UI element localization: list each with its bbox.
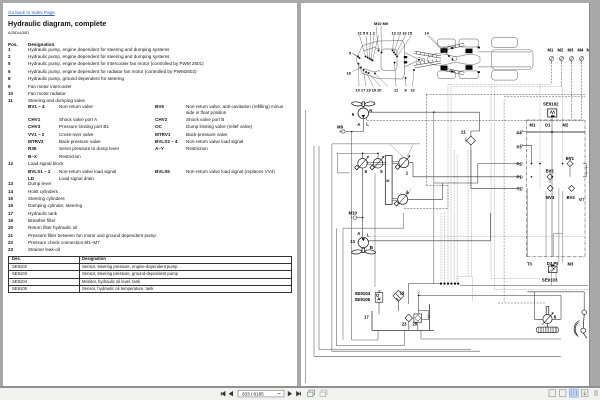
page number box bbox=[238, 390, 284, 397]
sensor SE9103 block bbox=[549, 266, 558, 273]
svg-text:M4: M4 bbox=[578, 48, 584, 53]
node LS crossing bbox=[539, 163, 541, 165]
hoist cylinder right on truck bbox=[443, 68, 465, 75]
check valve BV2 bbox=[547, 174, 553, 180]
truck callout leader lines bbox=[353, 26, 453, 87]
block lower verticals bbox=[527, 188, 563, 262]
dotted pair columns bbox=[468, 85, 495, 290]
test point M10 bbox=[351, 216, 357, 219]
measuring hose M1 drop bbox=[551, 62, 553, 85]
wheel front-right bbox=[438, 71, 456, 79]
truck cab front outline bbox=[356, 41, 405, 80]
node M10 junction bbox=[362, 217, 364, 219]
dash-dot column bbox=[503, 100, 505, 303]
truck callout labels bbox=[347, 21, 430, 92]
svg-text:20: 20 bbox=[412, 322, 417, 327]
wire B-line drop long bbox=[433, 112, 435, 283]
bogie frame outline bbox=[427, 54, 480, 66]
wire gearbox to pump2 shaft bbox=[392, 198, 398, 200]
check valve BV3 bbox=[547, 185, 553, 191]
truck platform inner outline bbox=[381, 49, 397, 71]
svg-text:B: B bbox=[369, 108, 372, 113]
svg-text:T3: T3 bbox=[527, 261, 533, 266]
wire tank return riser right bbox=[560, 295, 562, 319]
bottom toolbar bbox=[0, 386, 600, 400]
wire steering feed line bbox=[527, 292, 584, 320]
wire pump8 ports bbox=[535, 318, 562, 320]
wire pump6 down to fan10 bbox=[362, 168, 364, 237]
node M2 crossing bbox=[562, 163, 564, 165]
sensor SE9102 bbox=[548, 109, 557, 117]
test point M9 bbox=[339, 130, 345, 133]
sensor table bbox=[8, 256, 292, 294]
node D1 on P4 bbox=[551, 131, 553, 133]
svg-text:L: L bbox=[366, 121, 369, 126]
dotted LS line in block left bbox=[539, 85, 541, 189]
svg-text:8: 8 bbox=[554, 315, 557, 320]
node D3 connector bbox=[551, 265, 554, 267]
drain diagonals pump1 bbox=[390, 145, 413, 158]
wire sensor stem into tank bbox=[378, 302, 380, 314]
wheel rear-left bbox=[492, 38, 518, 48]
svg-text:18: 18 bbox=[347, 71, 352, 76]
filter 20 bypass loop bbox=[419, 311, 429, 320]
svg-text:22: 22 bbox=[411, 87, 416, 92]
svg-text:23: 23 bbox=[402, 322, 407, 327]
wire pump5 drain down bbox=[374, 173, 376, 287]
svg-text:M2: M2 bbox=[563, 123, 569, 128]
wire fan9 B port to filter 21 bbox=[369, 112, 480, 136]
wire grey cross line to pump2 bbox=[343, 213, 404, 228]
test point M3 bbox=[570, 57, 574, 63]
axle mounts black bbox=[404, 48, 473, 70]
pump 1 variable bbox=[395, 155, 410, 169]
svg-text:10: 10 bbox=[350, 239, 355, 244]
svg-text:M3: M3 bbox=[568, 261, 574, 266]
pump subframe bbox=[337, 153, 379, 173]
wire fan10 return elbow bbox=[336, 228, 404, 345]
port circle P4 bbox=[521, 130, 523, 132]
rear frame rails bbox=[478, 52, 531, 67]
wire filter 20 outlet bbox=[417, 322, 419, 330]
wire tank outlet bottom run bbox=[421, 330, 561, 339]
dotted M2 run bbox=[451, 86, 562, 88]
wheel front-left bbox=[438, 39, 456, 47]
test point M1 bbox=[550, 57, 554, 63]
strainer 23 bbox=[405, 314, 413, 322]
pump 8 ground dependent bbox=[542, 306, 553, 324]
wire LS collector to tank bbox=[409, 284, 441, 304]
inner dashed boundary right bbox=[504, 96, 585, 98]
svg-text:14: 14 bbox=[425, 31, 430, 36]
bogie pivot circle bbox=[452, 57, 456, 61]
svg-text:MT: MT bbox=[579, 197, 585, 202]
pump group solid frame bbox=[332, 144, 480, 351]
pump 2 variable bbox=[394, 192, 409, 206]
wire long left vertical outer bbox=[305, 110, 307, 383]
svg-text:SE9105: SE9105 bbox=[355, 297, 371, 302]
tank 17 bbox=[372, 304, 434, 330]
hitch pin bbox=[418, 59, 420, 61]
steering cylinder port bracket bbox=[583, 164, 588, 177]
svg-text:BV4: BV4 bbox=[567, 195, 576, 200]
wire fan9 L drain dashed bbox=[366, 118, 585, 121]
hitch circles bbox=[417, 57, 422, 62]
dump body rear outline bbox=[492, 50, 534, 70]
dotted M1 run bbox=[448, 84, 552, 86]
steering wheel unit bbox=[574, 310, 587, 338]
gearbox PTO bbox=[385, 156, 392, 205]
fan 9 labels bbox=[352, 108, 373, 126]
svg-text:L: L bbox=[367, 233, 370, 238]
previous view icon bbox=[308, 390, 315, 397]
node SE9102 tap bbox=[551, 115, 554, 117]
fan motor 9 intercooler bbox=[351, 101, 375, 118]
svg-text:21: 21 bbox=[461, 129, 466, 134]
wire P1 from pump1 bbox=[409, 163, 522, 177]
wire P3 stub bbox=[522, 145, 532, 163]
check valve BV1 bbox=[567, 161, 573, 167]
svg-text:B: B bbox=[370, 245, 373, 250]
truck callout dots bbox=[357, 50, 453, 79]
node M1 on P1 bbox=[531, 176, 533, 178]
articulation wedge bbox=[405, 53, 417, 68]
wheel mid-left bbox=[459, 39, 479, 47]
svg-text:D1: D1 bbox=[545, 123, 551, 128]
svg-text:5: 5 bbox=[380, 169, 383, 174]
wire fan10 L drain dotted bbox=[367, 235, 585, 237]
dotted elbows to pump8 bbox=[491, 279, 588, 290]
breather filter 19 bbox=[393, 290, 404, 301]
steering cylinder left on truck bbox=[414, 51, 441, 58]
svg-text:BV3: BV3 bbox=[546, 195, 555, 200]
wire fan10 B return bbox=[369, 213, 491, 241]
sensor SE9104/05 unit bbox=[375, 291, 383, 302]
node P3-P2 junction bbox=[531, 163, 533, 165]
port circle T2 bbox=[521, 187, 523, 189]
port labels M1 D1 M2 bbox=[530, 123, 569, 128]
wire P4 double line bbox=[522, 131, 586, 132]
svg-text:SE9104: SE9104 bbox=[355, 291, 371, 296]
svg-text:M10: M10 bbox=[349, 210, 358, 215]
load signal dotted columns bbox=[441, 85, 457, 284]
wire P2 from pump2 bbox=[408, 164, 522, 200]
first page button bbox=[221, 391, 225, 395]
wire long bottom drain bbox=[460, 285, 588, 287]
wire pump drive shaft bbox=[366, 162, 386, 164]
wire pump5 suction up bbox=[377, 153, 379, 158]
svg-text:SE9102: SE9102 bbox=[543, 102, 559, 107]
next page button bbox=[288, 391, 291, 395]
measuring hose M4 dashed drop bbox=[581, 62, 583, 120]
wire filter 21 to T2 bbox=[470, 145, 472, 188]
wire fan9 A port down to M9 junction bbox=[346, 119, 364, 132]
measuring hose M3 dashed drop bbox=[571, 62, 573, 120]
measuring hose M2 drop bbox=[561, 62, 563, 87]
wire M10 stub bbox=[357, 217, 363, 219]
valve block 11 dash-dot boundary bbox=[527, 120, 585, 257]
left document page: parts list bbox=[3, 3, 297, 386]
wire BV1 riser bbox=[569, 157, 571, 177]
pressure check points M1-M4 labels bbox=[548, 48, 591, 53]
port labels T3 D3 P5 M3 bbox=[527, 261, 574, 267]
bypass check ticks bbox=[427, 315, 429, 317]
svg-text:1: 1 bbox=[406, 171, 409, 176]
port circle P1 bbox=[521, 176, 523, 178]
SE9104 SE9105 labels bbox=[355, 291, 371, 302]
wire breather stem bbox=[397, 301, 399, 311]
wire left elbow third bbox=[319, 146, 471, 350]
prev page button bbox=[229, 391, 232, 395]
svg-text:M2: M2 bbox=[558, 48, 564, 53]
svg-text:17: 17 bbox=[364, 315, 369, 320]
test point M4 bbox=[580, 57, 584, 63]
port labels P4 P3 P2 P1 T2 bbox=[517, 130, 523, 191]
dotted LS elbow right bbox=[457, 277, 472, 302]
svg-text:19: 19 bbox=[400, 290, 405, 295]
dotted LS line in block right bbox=[562, 87, 564, 164]
wheel hub marks bbox=[451, 47, 480, 73]
node shaft feed pump5 bbox=[377, 153, 379, 155]
truck top-view overview drawing bbox=[356, 38, 533, 81]
wire pump6 suction up bbox=[362, 153, 364, 158]
fan 9 motor triangle bbox=[362, 115, 365, 118]
wire vertical from grey cross bbox=[342, 228, 344, 340]
hoist cylinder left on truck bbox=[443, 43, 465, 50]
port circle P3 bbox=[521, 144, 523, 146]
svg-text:SE9103: SE9103 bbox=[542, 278, 558, 283]
svg-text:M9: M9 bbox=[337, 124, 344, 129]
right document page: hydraulic schematic bbox=[301, 3, 590, 386]
wire return long line bbox=[419, 294, 561, 296]
node at B line junction bbox=[433, 111, 435, 113]
wire left elbow second bbox=[314, 146, 561, 356]
wire return into filter 20 bbox=[418, 295, 420, 314]
node D1-P1 junction bbox=[551, 176, 553, 178]
wire strainer to tank bottom bbox=[408, 322, 410, 331]
svg-text:11: 11 bbox=[394, 87, 399, 92]
steering cylinder right on truck bbox=[414, 59, 441, 68]
svg-text:333 / 6165: 333 / 6165 bbox=[242, 391, 264, 396]
wire sensor taps down bbox=[552, 273, 557, 286]
svg-text:M10 M9: M10 M9 bbox=[374, 21, 389, 26]
wire BV2 riser bbox=[549, 170, 551, 183]
filter 21 bbox=[465, 136, 475, 145]
truck engine inner outline bbox=[363, 48, 380, 73]
check valve BV4 bbox=[569, 185, 575, 191]
pump 6 variable bbox=[355, 156, 369, 170]
fan 10 labels bbox=[350, 231, 373, 250]
svg-text:10 17 23 19 20: 10 17 23 19 20 bbox=[356, 87, 382, 92]
svg-text:M1: M1 bbox=[548, 48, 554, 53]
wire M9 drain down left bbox=[352, 132, 378, 341]
page layout buttons right bbox=[549, 389, 555, 396]
svg-text:A: A bbox=[357, 122, 360, 127]
wire T2 line bbox=[471, 187, 522, 189]
svg-text:M: M bbox=[587, 48, 589, 53]
svg-text:6: 6 bbox=[365, 169, 368, 174]
svg-text:9: 9 bbox=[352, 112, 355, 117]
port circle P2 bbox=[521, 163, 523, 165]
wheel rear-right bbox=[492, 70, 518, 80]
node return junction bbox=[418, 295, 420, 297]
svg-text:8: 8 bbox=[405, 87, 408, 92]
tire ground drive bbox=[536, 324, 558, 333]
block inner pipe elbow bbox=[553, 234, 563, 257]
valve 11 outer dashed boundary bbox=[404, 94, 585, 208]
last page button bbox=[297, 391, 301, 395]
svg-text:21 5 9 1 2: 21 5 9 1 2 bbox=[358, 31, 376, 36]
svg-text:M1: M1 bbox=[530, 123, 536, 128]
node M9 junction bbox=[351, 131, 353, 133]
fan motor 10 radiator bbox=[351, 237, 375, 254]
svg-text:2: 2 bbox=[406, 189, 409, 194]
svg-text:13 12 16 15: 13 12 16 15 bbox=[392, 31, 413, 36]
LS heavy dots row bbox=[440, 283, 459, 285]
svg-text:5: 5 bbox=[349, 51, 352, 56]
return filter 20 bbox=[414, 314, 422, 322]
svg-text:A: A bbox=[357, 231, 360, 236]
drain diagonal pump2 bbox=[407, 189, 412, 195]
wheel mid-right bbox=[459, 71, 479, 79]
wire gearbox to pump1 shaft bbox=[392, 162, 399, 164]
fan 10 motor triangle bbox=[362, 238, 365, 241]
svg-text:III: III bbox=[386, 179, 389, 183]
wire D1 sensor drop bbox=[551, 116, 553, 256]
pump 5 variable bbox=[370, 156, 384, 170]
node shaft feed pump6 bbox=[362, 153, 364, 155]
test point M2 bbox=[560, 57, 564, 63]
svg-text:M3: M3 bbox=[568, 48, 574, 53]
orifice mark above junction bbox=[417, 291, 419, 293]
